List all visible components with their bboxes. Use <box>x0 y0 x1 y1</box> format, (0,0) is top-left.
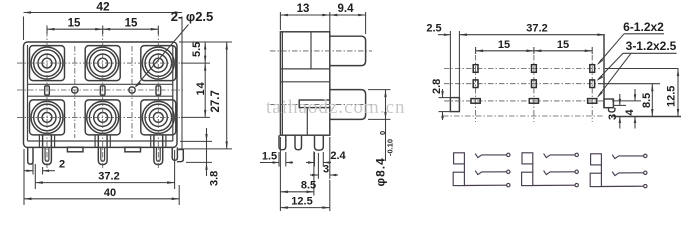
svg-text:40: 40 <box>104 187 116 199</box>
dim phi8.4 <box>368 90 395 187</box>
pads row2 <box>473 80 594 88</box>
dim 12.5 (side) <box>280 137 329 211</box>
bottom dashdot <box>443 115 604 117</box>
svg-text:2: 2 <box>59 159 65 171</box>
svg-text:15: 15 <box>68 18 81 30</box>
dim 15 15 <box>47 18 158 35</box>
jack circles row2 col2 <box>87 101 119 133</box>
svg-text:13: 13 <box>297 3 310 15</box>
bottom feet and tabs <box>28 147 184 164</box>
svg-text:12.5: 12.5 <box>666 86 678 107</box>
body <box>280 32 329 135</box>
switch group 1 <box>453 153 510 187</box>
pin C <box>315 135 324 150</box>
centerlines holes <box>75 46 132 138</box>
dim 8.5 (right view) <box>598 84 660 117</box>
dim 2.8 <box>431 79 450 120</box>
dim 40 (left view) <box>24 149 179 205</box>
svg-text:42: 42 <box>96 0 110 14</box>
jack bezels row2 <box>30 100 176 135</box>
dim 9.4 <box>330 3 366 34</box>
mid slots at columns <box>45 86 161 95</box>
svg-text:1.5: 1.5 <box>262 151 277 163</box>
phi2.5 hole 1 <box>72 87 78 93</box>
svg-text:15: 15 <box>557 39 569 51</box>
phi2.5 hole 2 <box>129 87 135 93</box>
svg-text:12.5: 12.5 <box>291 196 312 208</box>
dim 15 15 (right view) <box>476 39 593 54</box>
dim 4 (right view) <box>612 89 641 129</box>
svg-text:2.5: 2.5 <box>426 23 441 35</box>
dim 37.2 (right view) <box>459 23 605 37</box>
centerlines columns <box>47 31 158 168</box>
jack bezels row1 <box>30 46 176 81</box>
svg-text:3-1.2x2.5: 3-1.2x2.5 <box>626 39 677 53</box>
right edge with step <box>603 35 605 108</box>
dim 12.5 (right view) <box>605 69 679 117</box>
dim 3 (side) <box>310 137 338 179</box>
svg-text:6-1.2x2: 6-1.2x2 <box>623 20 664 34</box>
label 3-1.2x2.5 <box>597 39 677 98</box>
centerlines rows <box>17 63 183 117</box>
switch group 3 <box>590 154 647 188</box>
jack circles row2 col3 <box>142 101 174 133</box>
svg-text:9.4: 9.4 <box>338 3 355 15</box>
svg-text:14: 14 <box>195 81 207 95</box>
pins under columns <box>39 135 165 165</box>
pads row1 <box>473 65 594 73</box>
svg-text:8.5: 8.5 <box>301 180 316 192</box>
centerline row2 (side) <box>270 104 372 106</box>
dim 5.5 and 14 <box>179 42 232 118</box>
ground slot <box>450 98 459 112</box>
dim 1.5 <box>260 151 293 167</box>
svg-text:taihaodz.com.cn: taihaodz.com.cn <box>266 97 406 118</box>
centerline row1 (side) <box>270 50 372 52</box>
dim 2 (pins) <box>24 157 65 175</box>
jack circles row1 col3 <box>142 47 174 79</box>
dim 3.8 (left view right) <box>180 128 221 186</box>
dim 27.7 <box>179 42 232 149</box>
pin A <box>279 135 286 150</box>
svg-text:2.8: 2.8 <box>431 79 443 94</box>
column centerlines <box>476 55 593 122</box>
svg-text:-0.10: -0.10 <box>386 139 395 156</box>
label 6-1.2x2 <box>597 20 664 65</box>
barrel row1 <box>330 36 366 65</box>
jack circles row1 col2 <box>87 47 119 79</box>
svg-text:3: 3 <box>607 114 619 120</box>
jack circles row1 col1 <box>31 47 63 79</box>
svg-text:27.7: 27.7 <box>210 90 222 112</box>
svg-text:2- φ2.5: 2- φ2.5 <box>171 9 214 24</box>
svg-text:15: 15 <box>125 18 138 30</box>
svg-text:φ8.4: φ8.4 <box>374 157 388 186</box>
svg-text:4: 4 <box>624 109 636 116</box>
svg-text:2.4: 2.4 <box>330 150 346 162</box>
dim 8.5 (side) <box>280 152 316 196</box>
window on body <box>299 100 330 108</box>
label 2-phi2.5 <box>135 9 214 88</box>
svg-text:0: 0 <box>378 131 387 135</box>
svg-text:37.2: 37.2 <box>98 171 119 183</box>
dim 37.2 (left view) <box>35 150 174 189</box>
dim 42 <box>24 0 183 149</box>
jack circles row2 col1 <box>31 101 63 133</box>
barrel row2 <box>330 90 366 120</box>
dim 2.5 <box>426 23 459 98</box>
svg-text:3.8: 3.8 <box>209 171 221 186</box>
svg-text:8.5: 8.5 <box>641 93 653 108</box>
row centerlines <box>444 69 604 101</box>
svg-text:15: 15 <box>498 39 510 51</box>
dim 3 (right view) <box>607 94 626 129</box>
body outline <box>24 42 178 147</box>
pads row3 <box>471 99 597 104</box>
svg-text:37.2: 37.2 <box>526 23 547 35</box>
dim 13 <box>280 3 329 34</box>
svg-text:5.5: 5.5 <box>191 42 203 57</box>
switch group 2 <box>522 153 579 187</box>
svg-text:3: 3 <box>323 163 329 175</box>
dim 2.4 <box>306 150 347 167</box>
pin B <box>295 135 302 150</box>
